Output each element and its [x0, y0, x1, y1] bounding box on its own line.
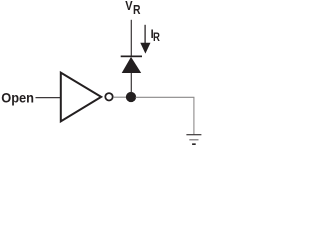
inverter U1: [61, 73, 101, 122]
label IR: [151, 27, 160, 44]
label VR: [125, 0, 141, 17]
ground: [186, 135, 201, 145]
svg-text:V: V: [125, 0, 132, 13]
svg-text:R: R: [133, 3, 141, 17]
diode D1 (cathode bar): [121, 56, 142, 58]
node junction dot: [126, 92, 136, 102]
wire: node to right corner: [136, 96, 195, 98]
wire: diode anode to node: [130, 73, 132, 93]
svg-text:Open: Open: [1, 90, 34, 106]
wire: bubble to node: [114, 96, 127, 98]
current arrow IR (head): [140, 43, 150, 54]
diode D1 (anode triangle): [122, 57, 142, 73]
current arrow IR (shaft): [144, 25, 146, 44]
label Open: [1, 90, 34, 106]
wire: Open label to inverter input: [36, 97, 61, 99]
wire: VR lead down to diode cathode: [130, 20, 132, 56]
wire: corner down to ground: [193, 97, 195, 134]
inverter output bubble: [105, 93, 112, 100]
svg-text:R: R: [153, 31, 160, 44]
